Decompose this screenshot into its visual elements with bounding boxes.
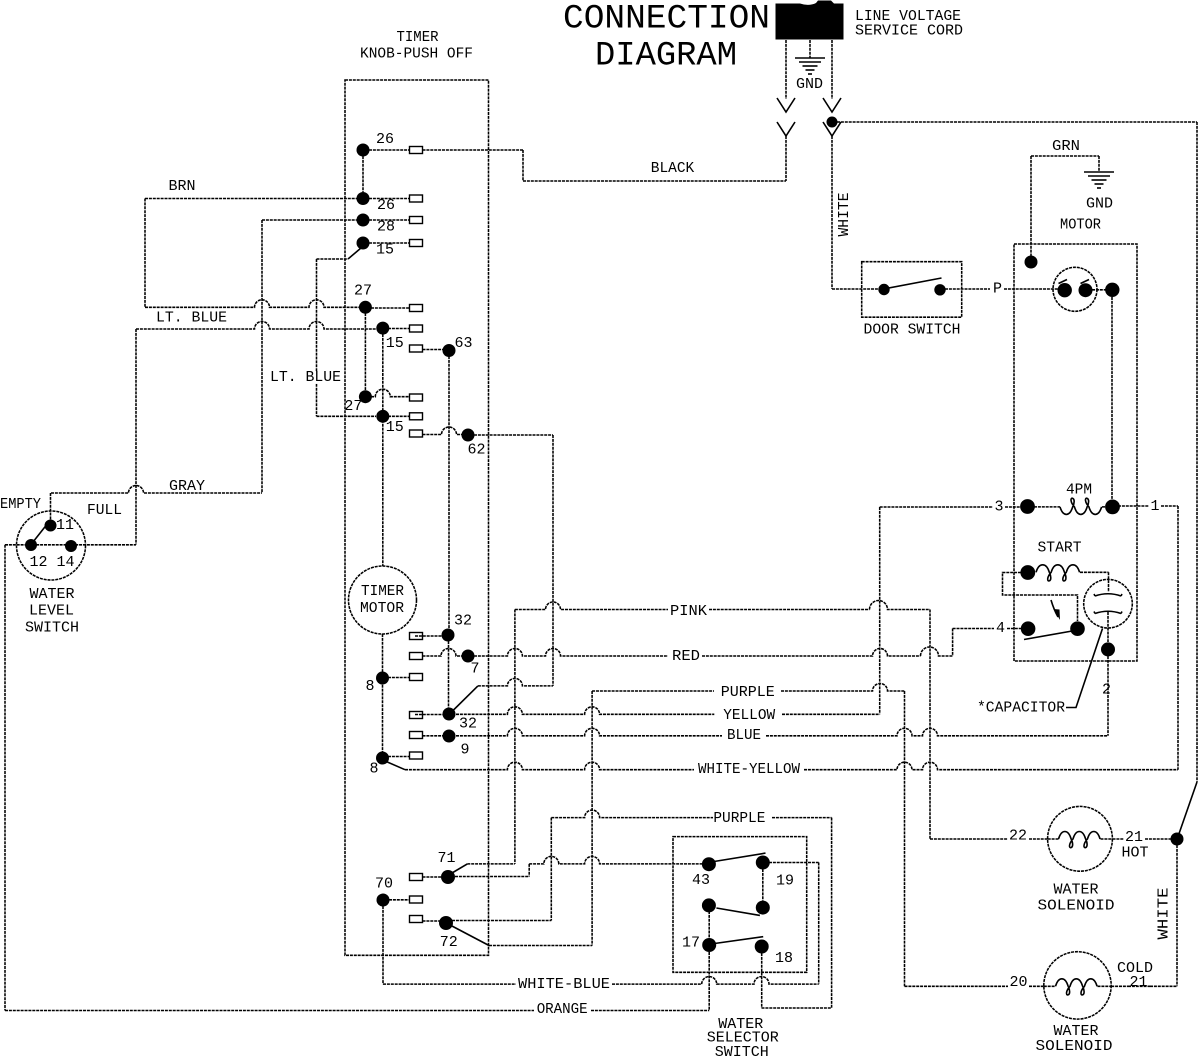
wire GRN from motor to ground — [1030, 156, 1032, 256]
timer terminal 9 — [410, 732, 423, 739]
svg-text:27: 27 — [344, 398, 362, 415]
svg-text:32: 32 — [459, 716, 477, 733]
wire door switch to motor P — [945, 288, 990, 290]
wire timer 63 down to 32a — [448, 356, 450, 629]
timer terminal 32b — [443, 708, 456, 721]
svg-text:19: 19 — [776, 873, 794, 890]
svg-text:GND: GND — [796, 76, 823, 93]
motor protector circle — [1053, 267, 1097, 311]
wire P node down to 4PM — [1111, 297, 1113, 500]
door switch blade — [886, 278, 942, 289]
wire GRAY riser to timer 28 — [262, 219, 357, 221]
timer terminal 15c — [376, 410, 389, 423]
wire BRN corner down to 27 row — [144, 199, 146, 308]
protector right contact — [1079, 283, 1093, 297]
wire 19 to middle right — [762, 869, 764, 901]
wire ORANGE riser to selector 17 — [708, 952, 710, 1011]
junction node at plug right prong — [827, 117, 838, 128]
wire timer 71 row to water selector 43 — [455, 876, 529, 878]
cold solenoid coil — [1044, 985, 1056, 987]
svg-text:8: 8 — [365, 678, 374, 695]
wire RED row from timer 7 — [474, 648, 668, 656]
wire middle left down to 17 — [708, 911, 710, 938]
motor start switch blade — [1024, 631, 1075, 640]
svg-text:YELLOW: YELLOW — [723, 707, 775, 724]
svg-text:18: 18 — [775, 950, 793, 967]
wire WHITE rail from plug to door switch — [831, 136, 833, 289]
timer terminal 62 — [410, 430, 423, 437]
selector middle left terminal — [702, 898, 716, 912]
svg-text:PURPLE: PURPLE — [713, 810, 765, 827]
timer terminal 8b — [376, 752, 389, 765]
ground GND at motor — [1084, 171, 1114, 173]
svg-text:28: 28 — [377, 219, 395, 236]
svg-text:LEVEL: LEVEL — [29, 603, 74, 620]
wire PURPLE upper branch from timer 72 — [452, 920, 551, 922]
svg-text:1: 1 — [1150, 498, 1159, 515]
svg-text:43: 43 — [692, 872, 710, 889]
timer terminal 63 — [410, 345, 423, 352]
selector blade 17 — [711, 937, 763, 944]
water level switch circle — [17, 511, 86, 580]
svg-text:17: 17 — [682, 935, 700, 952]
wire 22 row — [930, 838, 1008, 840]
wire WHITE-YELLOW riser to motor 1 — [1177, 506, 1179, 770]
svg-text:27: 27 — [354, 283, 372, 300]
svg-text:22: 22 — [1009, 828, 1027, 845]
wire timer 70 drop to WHITE-BLUE — [382, 906, 384, 984]
wire 62 row to riser — [474, 434, 553, 436]
svg-text:WHITE-YELLOW: WHITE-YELLOW — [698, 761, 800, 778]
selector terminal 43 — [702, 857, 716, 871]
wire 43 row into box — [702, 863, 709, 865]
water level switch terminal 12 — [25, 539, 37, 551]
wire timer 26a to 26b — [362, 156, 364, 192]
svg-text:BRN: BRN — [168, 178, 195, 195]
wire start coil to capacitor — [1108, 572, 1110, 592]
capacitor top plate — [1094, 594, 1122, 596]
svg-text:SOLENOID: SOLENOID — [1038, 898, 1115, 915]
wire protector to P terminal — [1092, 289, 1112, 291]
wire WHITE-BLUE riser to selector 19 — [818, 863, 820, 985]
wire hot solenoid to 21 — [1113, 838, 1125, 840]
svg-text:15: 15 — [376, 242, 394, 259]
svg-text:7: 7 — [470, 661, 479, 678]
timer terminal 15b — [376, 322, 389, 335]
svg-text:SERVICE CORD: SERVICE CORD — [855, 23, 963, 40]
wire YELLOW riser up to motor 3 — [879, 507, 881, 714]
wire PURPLE drop to cold solenoid 20 — [904, 691, 906, 986]
plug right prong wire with arrowheads — [831, 40, 833, 99]
wire BLUE row from timer 9 — [456, 728, 722, 736]
wire capacitor to terminal 2 — [1107, 612, 1109, 642]
svg-text:71: 71 — [437, 850, 455, 867]
hot solenoid coil — [1048, 838, 1059, 840]
wire PURPLE drop to selector 18 jog — [831, 818, 833, 1008]
svg-text:LT. BLUE: LT. BLUE — [270, 369, 341, 386]
svg-text:SWITCH: SWITCH — [25, 620, 79, 637]
svg-text:70: 70 — [375, 876, 393, 893]
water level switch terminal 11 — [45, 520, 57, 532]
wire LT. BLUE corner down to FULL row — [135, 329, 137, 545]
svg-text:KNOB-PUSH OFF: KNOB-PUSH OFF — [360, 46, 473, 63]
wire terminal 11 up to GRAY — [50, 493, 52, 520]
svg-text:2: 2 — [1102, 682, 1111, 699]
motor blade arrow — [1051, 600, 1058, 617]
selector terminal 19 — [756, 856, 770, 870]
svg-text:P: P — [993, 281, 1002, 298]
svg-text:15: 15 — [386, 335, 404, 352]
motor ground terminal — [1025, 256, 1038, 269]
svg-text:20: 20 — [1009, 974, 1027, 991]
wire timer 27a to 27b — [364, 313, 366, 391]
node BLACK wire junction / wire BLACK from timer 26 — [423, 149, 524, 151]
timer box TIMER KNOB-PUSH OFF — [345, 80, 489, 955]
timer terminal 70 — [377, 894, 390, 907]
svg-text:BLUE: BLUE — [727, 727, 761, 744]
svg-text:WATER: WATER — [1053, 882, 1098, 899]
svg-text:PINK: PINK — [670, 603, 707, 620]
wire 18 down to jog — [761, 953, 763, 1008]
motor capacitor circle — [1084, 579, 1133, 628]
wire PURPLE riser at 592 down to timer 72 — [591, 691, 593, 946]
water selector switch box — [673, 837, 807, 973]
timer terminal 7 — [410, 653, 423, 660]
timer terminal 26 top — [357, 144, 370, 157]
wire timer motor stem up to 15b/15c — [382, 334, 384, 566]
wire into timer 27a — [145, 300, 359, 307]
timer terminal 72 — [410, 916, 423, 923]
motor blade right contact — [1070, 621, 1085, 636]
svg-text:MOTOR: MOTOR — [1060, 217, 1101, 234]
svg-text:HOT: HOT — [1121, 845, 1148, 862]
svg-text:BLACK: BLACK — [651, 160, 695, 177]
wire ORANGE row — [5, 1010, 534, 1012]
selector middle blade — [716, 908, 760, 915]
wire into timer 15a with diagonal — [317, 258, 349, 260]
svg-text:WHITE: WHITE — [836, 193, 853, 237]
wire riser 15c row — [317, 415, 377, 417]
wire 20 row — [905, 985, 1009, 987]
timer terminal 27b — [359, 390, 372, 403]
water level switch terminal 14 — [65, 540, 77, 552]
label LT. BLUE lower — [268, 371, 343, 384]
svg-text:63: 63 — [454, 335, 472, 352]
svg-text:26: 26 — [377, 197, 395, 214]
wire GRAY from water level switch — [51, 486, 262, 493]
water level switch blade 12-11 — [33, 523, 48, 542]
svg-text:CONNECTION: CONNECTION — [563, 0, 770, 39]
svg-text:EMPTY: EMPTY — [0, 496, 41, 513]
protector contact whiskers — [1059, 280, 1068, 284]
selector blade 43 — [711, 853, 766, 862]
door switch box — [862, 262, 962, 318]
svg-text:8: 8 — [369, 761, 378, 778]
wire white rail hot to cold — [1176, 845, 1178, 986]
timer terminal 15a — [357, 237, 370, 250]
svg-text:MOTOR: MOTOR — [360, 600, 404, 617]
svg-text:12: 12 — [29, 554, 47, 571]
svg-text:LT. BLUE: LT. BLUE — [156, 310, 227, 327]
svg-text:RED: RED — [672, 648, 700, 665]
wire FULL row through 12 and 14 — [5, 544, 136, 546]
wire RED jog up to motor 4 — [952, 629, 954, 657]
wire WHITE-YELLOW row from timer 8b — [385, 761, 405, 770]
ground GND under plug — [809, 40, 811, 58]
wire LT. BLUE second riser 15a-15c — [316, 259, 318, 416]
svg-text:32: 32 — [454, 613, 472, 630]
wire riser 62 down to 32b diagonal row — [552, 435, 554, 686]
selector terminal 18 — [755, 940, 769, 954]
plug left prong wire with arrowheads — [785, 40, 787, 99]
wire YELLOW row from timer 32b — [456, 707, 714, 715]
capacitor bottom plate — [1094, 611, 1122, 613]
svg-text:GRAY: GRAY — [169, 478, 205, 495]
svg-text:15: 15 — [386, 419, 404, 436]
wire timer 32a down to 32b — [448, 641, 450, 708]
wire start jog to blade contact — [1003, 573, 1078, 622]
motor START winding — [1020, 565, 1035, 580]
wire PINK riser down to 71 row — [514, 610, 516, 864]
svg-text:26: 26 — [376, 131, 394, 148]
selector terminal 17 — [702, 938, 716, 952]
svg-text:4: 4 — [996, 620, 1005, 637]
svg-text:GND: GND — [1086, 196, 1113, 213]
hot water solenoid circle — [1048, 806, 1113, 871]
svg-text:3: 3 — [994, 499, 1003, 516]
wire cold 21 row — [1128, 985, 1150, 987]
hot junction node — [1171, 833, 1184, 846]
svg-text:PURPLE: PURPLE — [721, 684, 775, 701]
wire motor 1 row — [1118, 505, 1149, 507]
svg-text:WATER: WATER — [29, 586, 74, 603]
svg-text:COLD: COLD — [1117, 960, 1153, 977]
svg-text:WHITE-BLUE: WHITE-BLUE — [518, 976, 610, 993]
svg-text:START: START — [1038, 540, 1082, 557]
svg-text:ORANGE: ORANGE — [537, 1001, 588, 1018]
timer terminal 32a — [442, 629, 455, 642]
wire PINK row — [515, 602, 668, 610]
motor terminal 2 node — [1101, 642, 1115, 656]
label GRN — [1050, 140, 1082, 153]
protector left contact — [1058, 283, 1072, 297]
timer terminal 27a — [359, 301, 372, 314]
motor 4PM winding — [1020, 499, 1035, 514]
line voltage service cord plug — [776, 1, 844, 40]
svg-text:SWITCH: SWITCH — [715, 1044, 769, 1060]
wire PINK drop to hot solenoid 22 — [929, 610, 931, 840]
wire 32b upper row to riser — [478, 678, 553, 686]
svg-text:11: 11 — [56, 517, 74, 534]
wire 32b diagonal — [452, 686, 478, 712]
timer terminal 28 — [357, 214, 370, 227]
wire left rail down to ORANGE — [4, 545, 6, 1011]
svg-text:14: 14 — [56, 554, 74, 571]
wire WHITE-BLUE row — [383, 983, 516, 985]
wire timer motor stem down to 8a/8b — [382, 634, 384, 752]
door switch terminal right — [934, 284, 945, 295]
wire selector 19 row — [769, 862, 819, 864]
svg-text:WHITE: WHITE — [1156, 888, 1173, 940]
motor terminal P node — [1105, 283, 1119, 297]
svg-text:TIMER: TIMER — [397, 29, 439, 46]
door switch terminal left — [878, 284, 889, 295]
svg-text:4PM: 4PM — [1066, 482, 1092, 499]
wire motor 3 row — [880, 506, 993, 508]
wire 2 down to BLUE row — [1107, 656, 1109, 736]
motor start switch terminal 4 — [1021, 621, 1036, 636]
motor box — [1014, 244, 1137, 661]
svg-text:SOLENOID: SOLENOID — [1036, 1038, 1113, 1055]
svg-text:21: 21 — [1125, 829, 1143, 846]
wire PURPLE row — [592, 690, 714, 692]
timer terminal 71 — [410, 874, 423, 881]
wire LT. BLUE to timer 15b — [136, 322, 376, 330]
svg-text:FULL: FULL — [87, 502, 122, 519]
wire top rail from plug to right edge — [837, 121, 1197, 123]
wire timer 71 diagonal to pink riser — [452, 864, 467, 873]
timer motor circle — [349, 566, 417, 634]
svg-text:DOOR SWITCH: DOOR SWITCH — [864, 322, 961, 339]
selector middle right terminal — [756, 901, 770, 915]
cold water solenoid circle — [1044, 952, 1111, 1019]
svg-text:*CAPACITOR: *CAPACITOR — [977, 700, 1065, 717]
wire BRN from timer 26b — [145, 198, 357, 200]
svg-text:62: 62 — [467, 441, 485, 458]
svg-text:DIAGRAM: DIAGRAM — [595, 37, 737, 76]
svg-text:72: 72 — [440, 934, 458, 951]
wire 72 diagonal row — [489, 945, 592, 947]
svg-text:GRN: GRN — [1052, 138, 1080, 155]
wire diagonal into hot junction — [1178, 782, 1198, 838]
svg-text:TIMER: TIMER — [361, 583, 404, 600]
timer terminal 8a — [376, 672, 389, 685]
svg-text:9: 9 — [460, 742, 469, 759]
timer terminal 26 second — [357, 192, 370, 205]
